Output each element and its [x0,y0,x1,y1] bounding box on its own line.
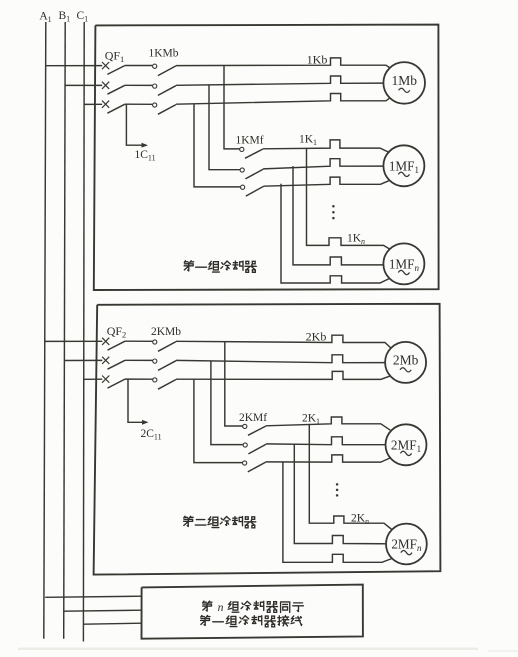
svg-text:1KMf: 1KMf [235,135,263,147]
svg-text:2KMf: 2KMf [239,412,267,424]
svg-text:1Kb: 1Kb [307,53,328,67]
svg-text:2Mb: 2Mb [393,352,419,367]
svg-text:n: n [218,601,224,614]
svg-text:1MF1: 1MF1 [389,158,419,175]
svg-text:2KMb: 2KMb [151,326,181,338]
svg-text:1KMb: 1KMb [148,48,178,60]
svg-text:2Kb: 2Kb [306,330,327,344]
svg-text:1Mb: 1Mb [391,73,417,88]
svg-text:2MF1: 2MF1 [391,437,421,454]
